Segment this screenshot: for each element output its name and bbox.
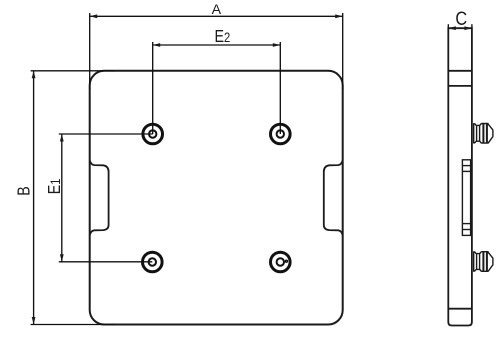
stud lower: [474, 252, 493, 272]
side view bottom step line: [448, 308, 472, 310]
label B: [14, 186, 34, 195]
svg-text:E1: E1: [44, 179, 64, 195]
dimension C arrows: [448, 26, 472, 30]
label E2: [215, 27, 231, 47]
dimension A line: [90, 13, 343, 90]
left side notch: [90, 160, 109, 235]
dimension E2 line: [153, 42, 281, 134]
hole top-left: [143, 124, 163, 144]
hole top-right: [271, 124, 291, 144]
svg-text:E2: E2: [215, 27, 231, 47]
side view slot: [462, 160, 470, 236]
label C: [455, 8, 467, 30]
svg-text:A: A: [212, 2, 222, 18]
label E1: [44, 179, 64, 195]
dimension B line: [31, 71, 115, 325]
dimension C line: [448, 24, 472, 28]
dimension B arrows: [32, 71, 36, 325]
side view second step line: [448, 85, 472, 87]
hole bottom-left: [143, 252, 163, 272]
stud upper: [474, 124, 493, 144]
svg-text:B: B: [14, 186, 34, 195]
dimension E1 arrows: [60, 134, 64, 262]
hole bottom-right: [271, 252, 291, 272]
front plate outline: [90, 71, 343, 325]
dimension E2 arrows: [153, 43, 281, 47]
dimension E1 line: [59, 134, 153, 262]
svg-text:C: C: [455, 8, 467, 30]
side view body: [448, 28, 472, 325]
dimension A arrows: [90, 14, 343, 18]
right side notch: [324, 160, 343, 235]
side view top step line: [448, 70, 472, 72]
